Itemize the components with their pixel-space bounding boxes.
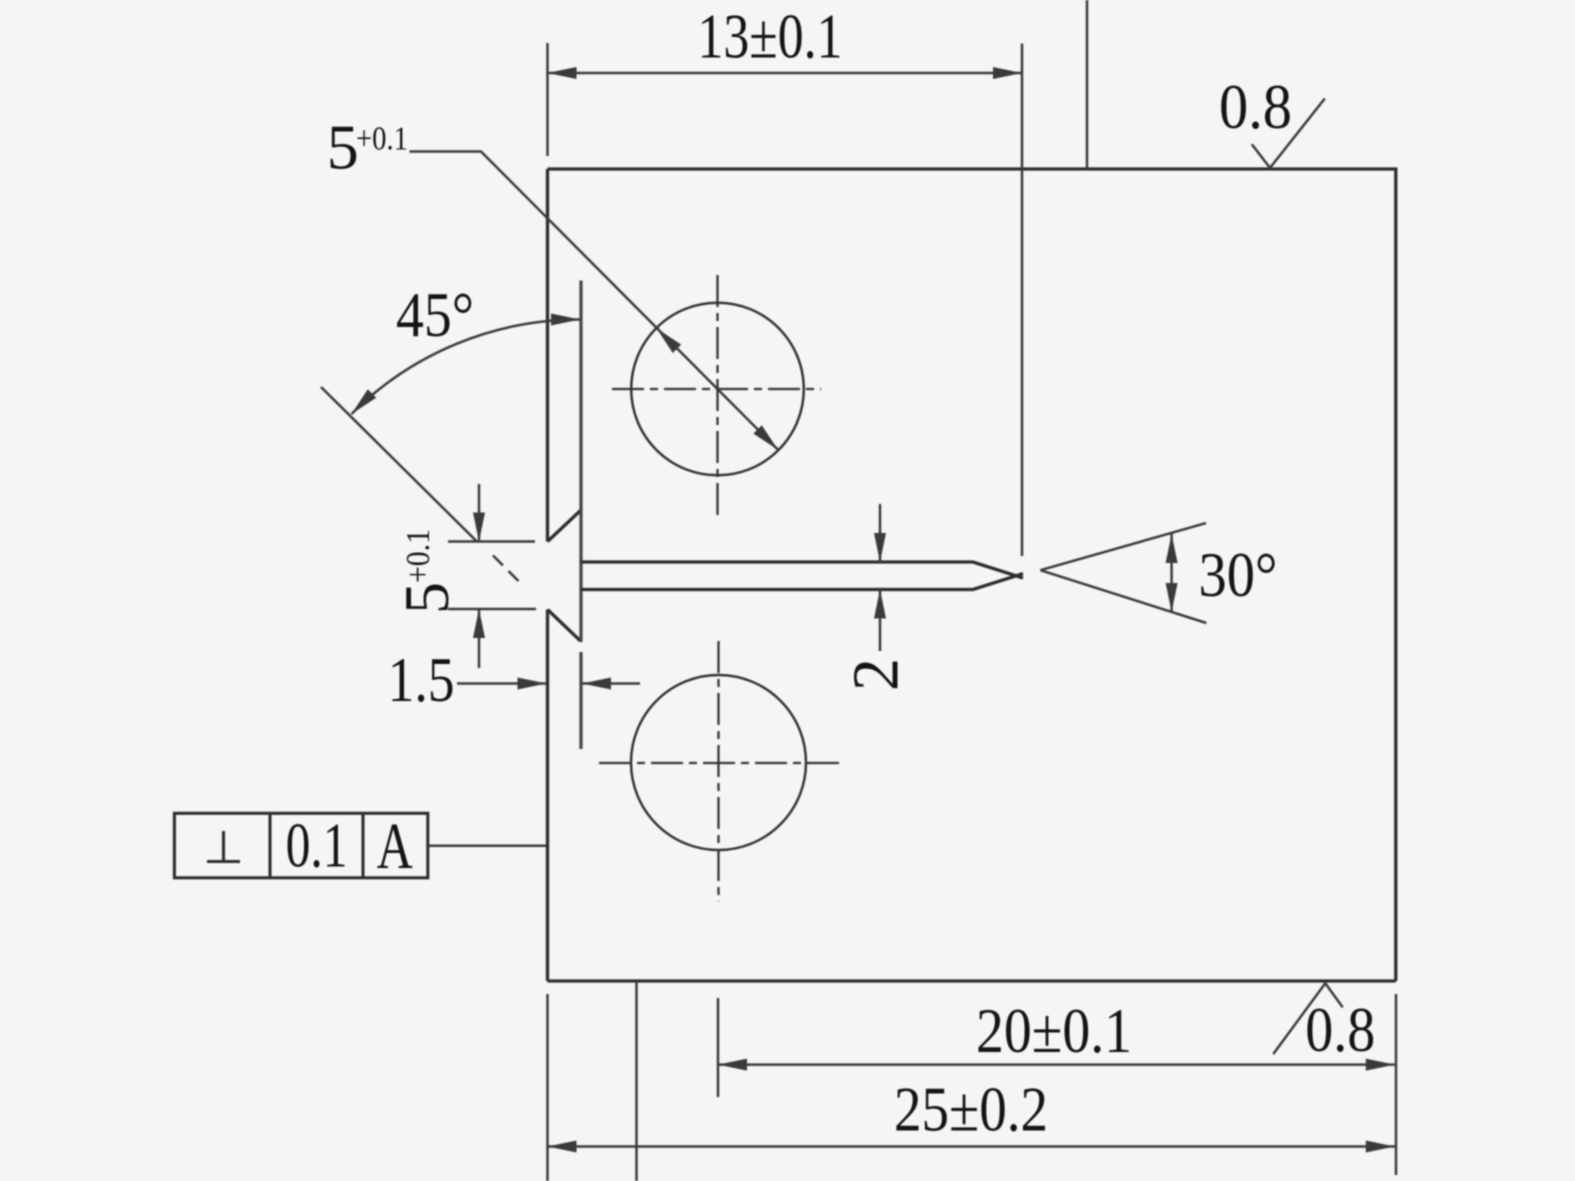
svg-text:25±0.2: 25±0.2 [894,1074,1048,1145]
svg-text:5: 5 [327,112,359,183]
svg-text:30°: 30° [1199,539,1278,610]
svg-text:+0.1: +0.1 [356,121,408,158]
svg-text:0.8: 0.8 [1219,71,1292,142]
svg-text:0.8: 0.8 [1305,994,1375,1065]
svg-text:+0.1: +0.1 [400,529,437,583]
svg-text:2: 2 [840,658,913,691]
svg-text:A: A [377,810,413,883]
svg-text:20±0.1: 20±0.1 [976,995,1132,1066]
svg-text:13±0.1: 13±0.1 [698,1,843,72]
svg-text:45°: 45° [396,279,474,350]
svg-text:5: 5 [391,582,462,614]
svg-text:1.5: 1.5 [388,644,455,715]
svg-text:0.1: 0.1 [286,810,348,881]
